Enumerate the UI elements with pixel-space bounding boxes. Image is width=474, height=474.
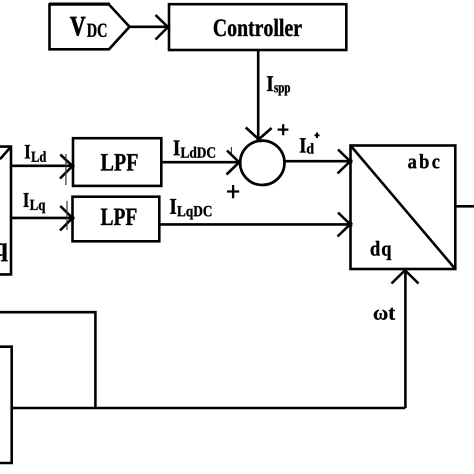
wire left block to LPF2 bbox=[11, 217, 72, 220]
label I_Ld bbox=[25, 145, 46, 162]
block LPF1 bbox=[73, 138, 161, 186]
wire summing junction to abc-dq block bbox=[284, 160, 349, 163]
wire VDC to Controller bbox=[130, 25, 168, 28]
label dq bbox=[371, 241, 392, 260]
wire LPF1 to summing junction bbox=[161, 161, 239, 164]
block bottom left (cut off) bbox=[0, 347, 12, 463]
label q fragment of left block bbox=[0, 243, 8, 261]
arrowhead into summing junction left bbox=[227, 151, 242, 175]
tick mark above junction arrowhead bbox=[230, 147, 232, 154]
label I_d bbox=[300, 138, 314, 153]
block abc-dq right bbox=[351, 146, 456, 270]
wire omega-t vertical bbox=[404, 270, 407, 408]
wire bottom horizontal to omega-t bbox=[12, 407, 406, 410]
wire abc-dq output right bbox=[455, 205, 474, 208]
block VDC pentagon bbox=[50, 5, 130, 50]
plus sign top right of junction bbox=[278, 124, 289, 135]
label omega-t bbox=[374, 308, 395, 320]
diagonal of abc-dq block bbox=[351, 146, 456, 270]
block Controller bbox=[169, 4, 346, 50]
block abc-dq left (cut off) bbox=[0, 147, 11, 275]
label LPF1 bbox=[101, 154, 138, 170]
label Controller bbox=[214, 19, 302, 37]
arrowhead into LPF1 bbox=[60, 155, 74, 179]
wire Controller to summing junction bbox=[257, 50, 260, 141]
arrowhead into LPF2 bbox=[60, 206, 74, 231]
label I_LqDC bbox=[170, 199, 211, 220]
wire left block to LPF1 bbox=[11, 165, 72, 168]
label abc bbox=[408, 154, 439, 168]
arrowhead into abc-dq upper bbox=[338, 150, 353, 174]
plus sign bottom left of junction bbox=[227, 185, 239, 198]
summing junction circle bbox=[240, 141, 284, 185]
tick mark at LPF2 input bbox=[66, 201, 68, 230]
wire from left edge down to bottom wire bbox=[0, 312, 95, 408]
label I_Lq bbox=[24, 193, 46, 213]
star superscript of I_d bbox=[315, 133, 320, 139]
label LPF2 bbox=[101, 209, 137, 225]
arrowhead into Controller bbox=[156, 15, 170, 40]
arrowhead up into abc-dq bottom bbox=[392, 269, 419, 284]
label I_LdDC bbox=[174, 141, 216, 158]
label V_DC bbox=[70, 17, 106, 37]
label I_spp bbox=[267, 76, 290, 95]
arrowhead into abc-dq lower bbox=[338, 213, 353, 237]
wire LPF2 to abc-dq block bbox=[159, 223, 349, 226]
tick mark at LPF1 input bbox=[65, 154, 67, 185]
block LPF2 bbox=[73, 197, 160, 242]
arrowhead down into summing junction bbox=[246, 128, 272, 142]
